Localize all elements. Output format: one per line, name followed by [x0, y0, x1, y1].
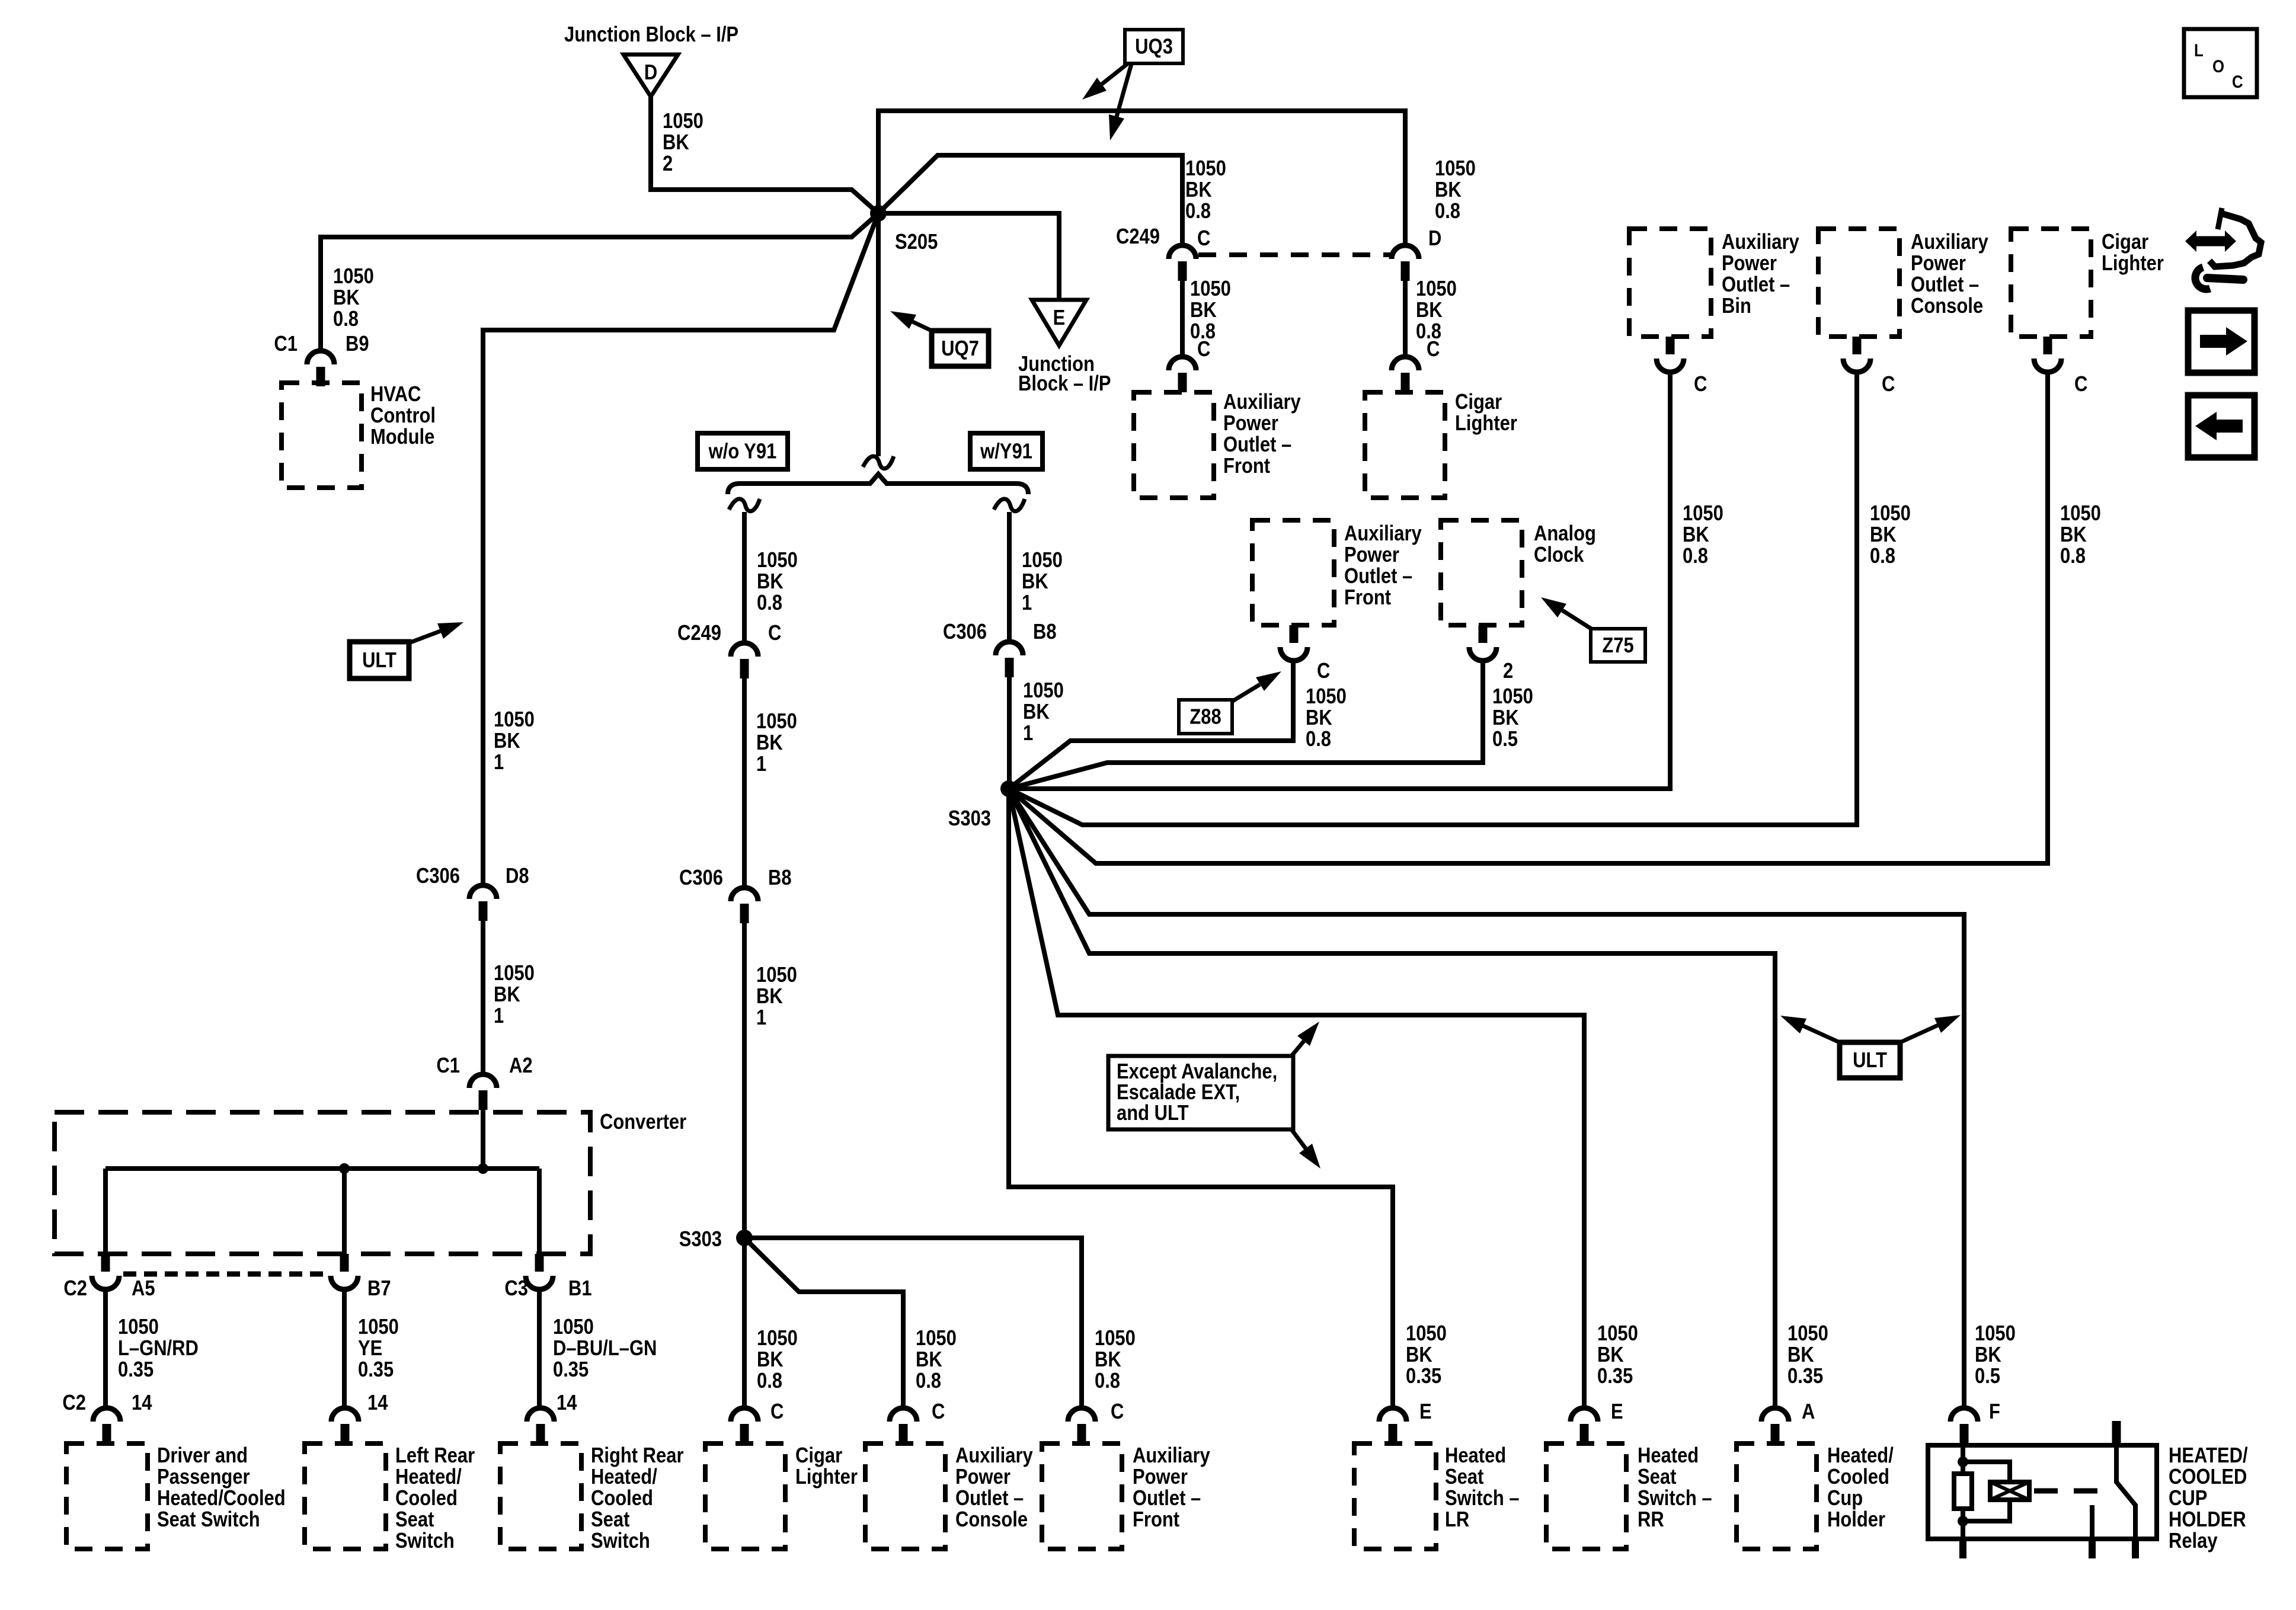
- relay node bottom: [1958, 1516, 1968, 1526]
- svg-text:B8: B8: [1033, 620, 1057, 644]
- wire S205 down to option brace: [876, 213, 881, 456]
- arrow UQ7: [890, 311, 934, 332]
- svg-text:D: D: [1428, 227, 1441, 251]
- wire break w/Y91 branch: [994, 499, 1025, 511]
- option box UQ7: [932, 331, 989, 366]
- cigar lighter box (top): [1365, 392, 1445, 498]
- option box Z75: [1591, 629, 1645, 662]
- connector cup holder A: [1761, 1408, 1789, 1443]
- option box Z88: [1179, 700, 1232, 734]
- svg-text:2: 2: [1503, 660, 1513, 683]
- arrow except avalanche down: [1291, 1129, 1320, 1169]
- arrow ULT right to relay wire: [1898, 1015, 1961, 1044]
- wire C306-D8 to C1-A2: [481, 921, 485, 1074]
- connector C3 B1: [526, 1254, 553, 1289]
- connector C306 B8 (right): [996, 642, 1023, 677]
- wire S303 lower to front outlet: [744, 1238, 1082, 1408]
- wire S303 to cup holder relay: [1009, 789, 1964, 1408]
- svg-text:D8: D8: [506, 865, 529, 888]
- heated seat switch LR box: [1354, 1443, 1436, 1549]
- svg-text:C: C: [1111, 1400, 1124, 1424]
- hotlink icon hand and wrench: [2185, 208, 2261, 289]
- cigar lighter right box: [2011, 229, 2091, 337]
- option brace: [728, 474, 1028, 494]
- svg-text:B8: B8: [768, 866, 792, 890]
- relay coil: [1990, 1482, 2029, 1500]
- wire break above brace: [863, 456, 894, 469]
- wire S303 to RR heated seat switch: [1009, 789, 1584, 1408]
- connector heated seat RR E: [1571, 1408, 1598, 1443]
- analog clock box: [1441, 520, 1522, 625]
- connector C2 A5: [92, 1254, 119, 1289]
- relay pin 2 (switch top): [2112, 1421, 2121, 1445]
- svg-text:C306: C306: [943, 620, 987, 644]
- cigar lighter bottom box: [705, 1443, 785, 1549]
- svg-text:A2: A2: [509, 1054, 533, 1078]
- converter junction at A2: [478, 1163, 488, 1174]
- svg-text:E: E: [1053, 306, 1066, 330]
- note box Except Avalanche: [1108, 1056, 1293, 1129]
- svg-text:UQ3: UQ3: [1135, 35, 1173, 59]
- legend arrow left box: [2188, 395, 2255, 457]
- svg-text:AuxiliaryPowerOutlet –Console: AuxiliaryPowerOutlet –Console: [1911, 231, 1988, 318]
- wire S303 to cup holder: [1009, 789, 1775, 1408]
- wire w/o Y91 branch to C249-C: [742, 512, 747, 643]
- arrow UQ3 left: [1082, 64, 1127, 100]
- splice S205: [870, 205, 887, 222]
- relay box HEATED/COOLED CUP HOLDER: [1928, 1445, 2157, 1539]
- wire S303 to bin outlet: [1009, 373, 1670, 789]
- legend arrow right box: [2188, 311, 2255, 373]
- converter internal bus: [105, 1166, 539, 1171]
- heated seat switch RR box: [1546, 1443, 1626, 1549]
- svg-text:AuxiliaryPowerOutlet –Console: AuxiliaryPowerOutlet –Console: [955, 1444, 1033, 1532]
- option box ULT (right): [1840, 1042, 1900, 1078]
- connector bin outlet C: [1657, 337, 1684, 372]
- option box w/Y91: [970, 433, 1043, 469]
- connector heated seat LR E: [1379, 1408, 1406, 1443]
- svg-text:C3: C3: [504, 1277, 528, 1301]
- connector cigar lighter C: [1392, 357, 1419, 392]
- connector front outlet mid C: [1280, 625, 1307, 661]
- connector front outlet bottom C: [1068, 1408, 1095, 1443]
- relay coil feed wire: [1961, 1445, 1965, 1539]
- connector RR seat switch 14: [527, 1408, 554, 1443]
- svg-text:C: C: [2074, 373, 2087, 396]
- wire break w/o Y91 branch: [729, 499, 760, 511]
- relay actuation dashed link: [2034, 1489, 2105, 1494]
- svg-text:C1: C1: [274, 332, 298, 356]
- aux power outlet bin box: [1629, 229, 1711, 337]
- wire C249-C to outlet front: [1180, 281, 1185, 357]
- wire B1 to RR seat switch: [537, 1289, 542, 1408]
- svg-text:C: C: [1197, 338, 1210, 361]
- svg-text:E: E: [1611, 1400, 1623, 1424]
- wire S303 lower to console outlet: [744, 1238, 903, 1408]
- svg-text:L: L: [2194, 40, 2204, 60]
- svg-text:C249: C249: [677, 622, 721, 645]
- wire S303 lower to cigar lighter: [742, 1238, 747, 1408]
- svg-text:UQ7: UQ7: [941, 337, 979, 361]
- svg-text:C: C: [770, 1400, 784, 1424]
- svg-text:Z88: Z88: [1189, 705, 1221, 729]
- relay bottom stub 1: [1959, 1539, 1966, 1558]
- wire S303 down to LR heated seat switch: [1009, 789, 1393, 1408]
- arrow Z88: [1233, 671, 1281, 701]
- svg-text:ULT: ULT: [362, 649, 396, 673]
- driver passenger seat switch box: [66, 1443, 148, 1549]
- wire S205 up to C249-D: [878, 111, 1405, 245]
- svg-text:C1: C1: [436, 1054, 460, 1078]
- svg-text:C: C: [1694, 373, 1707, 396]
- aux power outlet front box (top): [1134, 392, 1214, 498]
- arrow ULT left box: [409, 622, 463, 643]
- connector driver seat switch 14: [93, 1408, 120, 1443]
- aux power outlet console box: [1818, 229, 1900, 337]
- connector C1 A2: [469, 1074, 497, 1110]
- junction block E triangle: [1032, 300, 1086, 345]
- svg-text:C: C: [2232, 72, 2243, 91]
- connector C249 C: [1169, 245, 1196, 281]
- svg-text:C: C: [1197, 227, 1210, 251]
- svg-text:S303: S303: [948, 807, 991, 831]
- svg-text:B9: B9: [346, 332, 369, 356]
- arrow ULT right to cup holder wire: [1780, 1016, 1842, 1044]
- svg-text:F: F: [1989, 1400, 2000, 1424]
- svg-text:C: C: [1427, 338, 1440, 361]
- arrow Z75: [1541, 597, 1593, 630]
- LOC box: [2184, 29, 2257, 97]
- option box ULT (left): [350, 642, 409, 678]
- wire S205 right to E triangle: [878, 213, 1059, 300]
- svg-text:E: E: [1419, 1400, 1432, 1424]
- splice S303 (upper): [1000, 780, 1017, 797]
- svg-text:C: C: [1317, 660, 1330, 683]
- wire C249-C to C306-B8 (left): [742, 678, 747, 888]
- svg-text:w/Y91: w/Y91: [980, 440, 1032, 463]
- connector cigar right C: [2034, 337, 2061, 372]
- cup holder box: [1737, 1443, 1817, 1549]
- wire B7 to LR seat switch: [342, 1289, 347, 1408]
- connector cigar lighter bottom C: [731, 1408, 758, 1443]
- junction block D triangle: [623, 55, 678, 97]
- converter drop to B7: [342, 1169, 347, 1254]
- connector analog clock 2: [1469, 625, 1496, 661]
- svg-text:S303: S303: [679, 1228, 722, 1251]
- aux power outlet front box (mid): [1252, 520, 1334, 625]
- wire S205 left to HVAC: [321, 213, 878, 352]
- connector C306 D8: [469, 885, 497, 921]
- wire C249-D to cigar lighter: [1403, 281, 1408, 357]
- connector B7: [331, 1254, 358, 1289]
- splice S303 (lower): [736, 1230, 753, 1246]
- arrow except avalanche up: [1291, 1022, 1319, 1056]
- connector C306 B8 (mid): [731, 888, 758, 923]
- wire S205 to C249-C: [878, 155, 1182, 245]
- connector C249 C (mid): [731, 643, 758, 678]
- right rear seat switch box: [500, 1443, 581, 1549]
- wire A2 into converter: [481, 1110, 485, 1169]
- arrow UQ3 down: [1109, 64, 1131, 140]
- connector front outlet C: [1169, 357, 1196, 392]
- console outlet bottom box: [865, 1443, 945, 1549]
- svg-text:D: D: [644, 61, 657, 85]
- converter box: [55, 1112, 590, 1254]
- converter drop to C3-B1: [537, 1169, 542, 1254]
- left rear seat switch box: [305, 1443, 386, 1549]
- svg-text:14: 14: [557, 1391, 577, 1415]
- svg-text:S205: S205: [895, 231, 938, 254]
- wire S205 to ULT column: [483, 213, 878, 885]
- wire S303 to front outlet 2: [1009, 662, 1293, 789]
- connector C249 D: [1392, 245, 1419, 281]
- svg-text:B1: B1: [568, 1277, 592, 1301]
- relay NO contact: [2090, 1505, 2094, 1539]
- svg-text:C306: C306: [416, 865, 460, 888]
- wire C306-B8 to S303 lower: [742, 923, 747, 1238]
- wire A5 to seat switch: [103, 1289, 108, 1408]
- svg-text:B7: B7: [367, 1277, 391, 1301]
- svg-text:A: A: [1802, 1400, 1815, 1424]
- svg-text:Converter: Converter: [600, 1110, 686, 1134]
- svg-text:C: C: [1882, 373, 1895, 396]
- connector console outlet bottom C: [890, 1408, 917, 1443]
- svg-text:C: C: [932, 1400, 945, 1424]
- option box w/o Y91: [698, 433, 788, 469]
- wire D to S205: [651, 95, 878, 213]
- connector C1 B9: [307, 351, 334, 386]
- relay resistor: [1954, 1474, 1972, 1509]
- connector LR seat switch 14: [331, 1408, 359, 1443]
- svg-text:C306: C306: [679, 866, 723, 890]
- svg-text:w/o Y91: w/o Y91: [708, 440, 777, 463]
- svg-text:C2: C2: [62, 1391, 86, 1415]
- wire S303 to analog clock: [1009, 662, 1483, 789]
- relay switch arm: [2116, 1445, 2135, 1539]
- relay bottom stub 2: [2089, 1539, 2096, 1558]
- relay node top: [1958, 1457, 1968, 1467]
- connector console outlet C: [1843, 337, 1870, 372]
- svg-text:Heated/CooledCupHolder: Heated/CooledCupHolder: [1827, 1444, 1894, 1532]
- converter junction at B7: [339, 1163, 350, 1174]
- svg-text:Z75: Z75: [1602, 634, 1633, 658]
- dashed link C249 C-D: [1198, 252, 1390, 257]
- wire C306-B8 to S303 upper: [1007, 677, 1012, 789]
- svg-text:14: 14: [132, 1391, 152, 1415]
- svg-text:O: O: [2212, 56, 2224, 76]
- svg-text:A5: A5: [132, 1277, 155, 1301]
- svg-text:C2: C2: [63, 1277, 87, 1301]
- connector relay F: [1950, 1408, 1978, 1443]
- wire S303 to cigar lighter right: [1009, 373, 2048, 863]
- svg-text:C: C: [768, 622, 781, 645]
- converter drop to C2-A5: [103, 1169, 108, 1254]
- wire S303 to console outlet: [1009, 373, 1857, 825]
- wire w/Y91 branch to C306-B8: [1007, 512, 1012, 642]
- HVAC control module box: [282, 383, 362, 488]
- relay coil branch: [1963, 1462, 2010, 1521]
- svg-text:C249: C249: [1116, 225, 1160, 249]
- svg-text:Junction Block – I/P: Junction Block – I/P: [564, 23, 738, 47]
- option box UQ3: [1125, 30, 1183, 63]
- dashed link C2-B7 connectors: [123, 1272, 330, 1277]
- svg-text:14: 14: [367, 1391, 388, 1415]
- front outlet bottom box: [1042, 1443, 1122, 1549]
- svg-text:ULT: ULT: [1853, 1049, 1887, 1073]
- relay bottom stub 3: [2132, 1539, 2139, 1558]
